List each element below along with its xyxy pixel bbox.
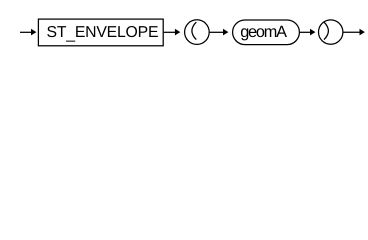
svg-text:geomA: geomA — [240, 23, 287, 41]
svg-text:ST_ENVELOPE: ST_ENVELOPE — [47, 24, 159, 43]
